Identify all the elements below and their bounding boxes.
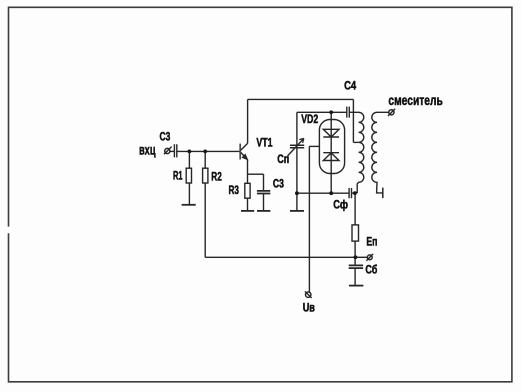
wire C3e stem top — [263, 174, 265, 190]
inductor L1 primary — [353, 112, 363, 193]
resistor R3 — [245, 183, 250, 198]
wire base — [177, 150, 240, 152]
capacitor Cb plates — [349, 265, 363, 268]
wire R1 stem bottom — [188, 183, 190, 205]
wire supply rail — [205, 256, 355, 258]
ground Cb — [349, 285, 363, 287]
wire R1 stem top — [188, 151, 190, 168]
wire input stub — [170, 150, 174, 152]
wire R3 stem bottom — [247, 198, 249, 211]
terminal slash Ep — [366, 254, 373, 261]
capacitor Cp plates — [290, 145, 304, 147]
capacitor C4 plates — [347, 107, 350, 118]
wire R2 stem top — [204, 151, 206, 168]
transistor VT1 collector diagonal — [241, 143, 248, 150]
wire tank top rail — [297, 111, 347, 113]
svg-text:вхц: вхц — [139, 141, 156, 157]
resistor R1 — [186, 168, 191, 183]
wire collector rail — [248, 98, 354, 100]
svg-text:Еп: Еп — [366, 234, 377, 248]
wire Uv vertical — [308, 146, 310, 292]
diode VD2 lower — [323, 153, 339, 161]
wire Cb stem bottom — [354, 268, 356, 286]
svg-text:VD2: VD2 — [301, 112, 318, 126]
wire ground stem Cp — [296, 193, 298, 211]
transistor VT1 emitter diagonal — [241, 152, 246, 157]
wire Cb stem top — [354, 257, 356, 265]
ground Cp — [290, 210, 304, 212]
capacitor C3e plates — [257, 191, 270, 194]
node dot VD2 bottom — [329, 191, 333, 195]
terminal slash Uv — [305, 291, 312, 298]
terminal bar secondary — [382, 188, 384, 199]
wire emitter vertical — [247, 160, 249, 184]
node dot VD2 top — [329, 110, 333, 114]
ground C3e — [257, 210, 270, 212]
svg-text:Сф: Сф — [333, 198, 348, 212]
wire C4 stub — [350, 111, 354, 113]
varicap VD2 stadium — [319, 120, 344, 174]
wire VD2 tap — [309, 145, 319, 147]
resistor R2 — [203, 168, 208, 183]
node dot Ep — [354, 255, 358, 259]
svg-text:R3: R3 — [229, 183, 240, 197]
capacitor Cf plates — [349, 188, 351, 198]
transistor VT1 emitter arrow — [242, 154, 247, 159]
node dot input R1 — [188, 150, 192, 154]
terminal slash input — [164, 147, 172, 155]
wire tank bottom rail — [297, 192, 349, 194]
svg-text:R2: R2 — [211, 169, 222, 183]
wire Rf stem bottom — [354, 241, 356, 257]
wire collector vertical — [247, 99, 249, 143]
svg-text:С3: С3 — [273, 177, 284, 191]
wire R2 stem to rail — [204, 183, 206, 257]
svg-text:С4: С4 — [344, 78, 356, 92]
terminal Ep — [367, 255, 372, 260]
svg-text:Uв: Uв — [303, 301, 315, 315]
svg-text:Сб: Сб — [365, 263, 377, 277]
node dot Cf right — [353, 191, 357, 195]
svg-text:С3: С3 — [160, 129, 171, 143]
transistor VT1 base bar — [239, 144, 241, 160]
svg-text:VT1: VT1 — [256, 136, 272, 150]
wire Cp vertical — [296, 112, 298, 193]
terminal Uv — [306, 292, 311, 297]
wire Ep branch — [354, 193, 356, 225]
wire Cf stub — [352, 192, 355, 194]
capacitor C3 input plates — [174, 144, 176, 157]
resistor Rf — [352, 225, 359, 241]
svg-text:R1: R1 — [173, 168, 183, 182]
capacitor Cp arrow — [288, 139, 304, 156]
diode VD2 upper — [323, 129, 339, 137]
node dot input R2 — [203, 150, 207, 154]
node dot Cp bottom — [295, 191, 299, 195]
ground R1 — [182, 204, 196, 206]
ground R3 — [241, 210, 254, 212]
wire C4 node vertical — [352, 99, 354, 142]
terminal input — [165, 148, 170, 153]
inductor L2 secondary — [372, 112, 389, 193]
wire VD2 center line — [330, 112, 332, 193]
wire Ep stub — [355, 256, 367, 258]
terminal slash mixer — [388, 109, 395, 116]
wire C3e stem bottom — [263, 194, 265, 211]
wire tap tick — [353, 141, 358, 143]
terminal mixer — [389, 110, 394, 115]
wire emitter branch — [248, 173, 264, 175]
svg-text:Сп: Сп — [277, 152, 289, 166]
svg-text:смеситель: смеситель — [388, 92, 443, 108]
